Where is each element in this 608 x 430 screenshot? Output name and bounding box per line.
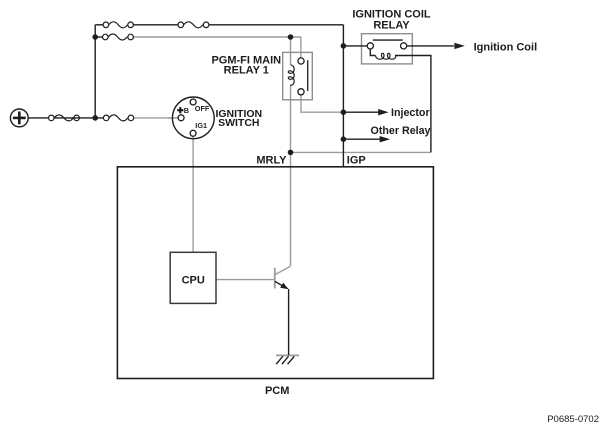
svg-text:OFF: OFF — [195, 104, 210, 113]
svg-text:Other Relay: Other Relay — [371, 125, 431, 137]
svg-text:RELAY 1: RELAY 1 — [224, 64, 269, 76]
svg-text:B: B — [184, 106, 189, 115]
svg-text:MRLY: MRLY — [256, 154, 287, 166]
svg-text:PCM: PCM — [265, 385, 289, 397]
svg-text:P0685-0702: P0685-0702 — [547, 414, 599, 425]
svg-text:RELAY: RELAY — [373, 19, 410, 31]
svg-text:Injector: Injector — [391, 107, 430, 119]
svg-text:Ignition Coil: Ignition Coil — [474, 42, 538, 54]
svg-text:SWITCH: SWITCH — [218, 117, 259, 129]
svg-text:IGP: IGP — [347, 154, 366, 166]
svg-text:CPU: CPU — [182, 275, 205, 287]
svg-text:IG1: IG1 — [195, 121, 207, 130]
